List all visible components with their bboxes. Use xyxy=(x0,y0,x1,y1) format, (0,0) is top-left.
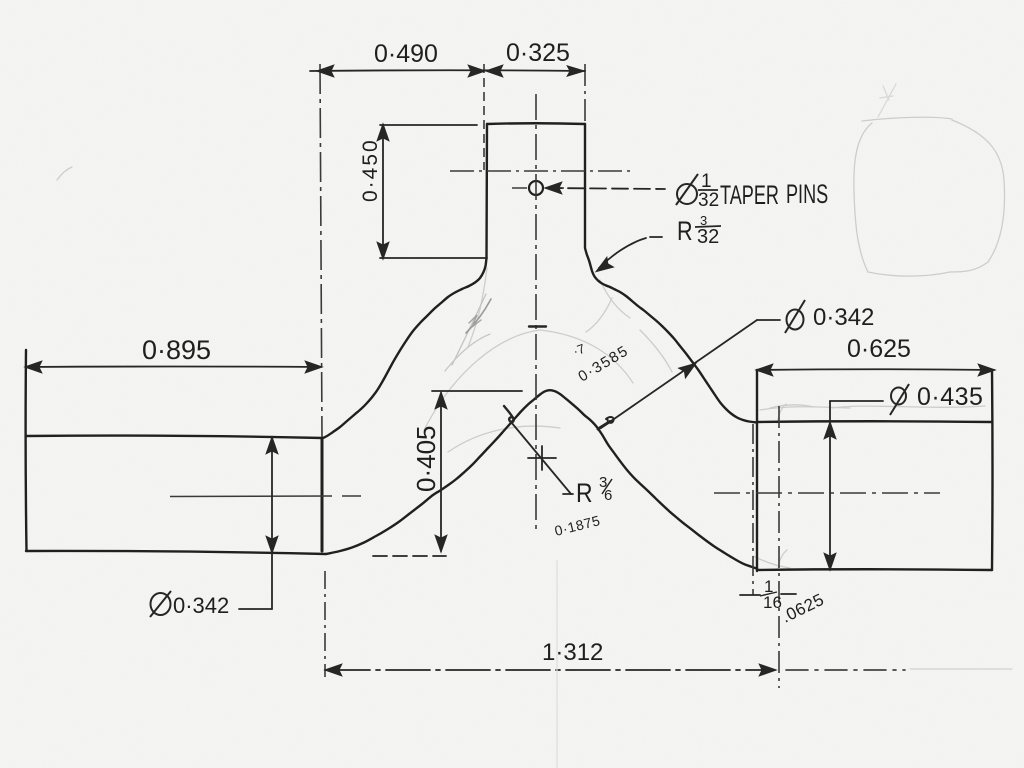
svg-text:R: R xyxy=(576,478,593,508)
svg-text:0·435: 0·435 xyxy=(917,383,983,411)
svg-text:0·625: 0·625 xyxy=(847,335,911,363)
svg-text:0·490: 0·490 xyxy=(374,40,438,68)
svg-text:32: 32 xyxy=(698,190,719,211)
svg-text:0·405: 0·405 xyxy=(411,426,441,493)
svg-text:0·342: 0·342 xyxy=(813,304,874,331)
svg-text:TAPER: TAPER xyxy=(720,179,779,210)
svg-text:6: 6 xyxy=(604,487,612,504)
svg-text:PINS: PINS xyxy=(786,178,828,209)
svg-text:R: R xyxy=(677,217,693,247)
svg-text:16: 16 xyxy=(763,593,782,612)
svg-text:1·312: 1·312 xyxy=(542,639,603,666)
svg-text:0·895: 0·895 xyxy=(142,335,211,365)
svg-text:1: 1 xyxy=(701,171,712,192)
svg-text:32: 32 xyxy=(697,226,719,248)
svg-text:0·342: 0·342 xyxy=(173,593,229,618)
svg-text:0·325: 0·325 xyxy=(506,39,570,67)
svg-text:0·450: 0·450 xyxy=(359,138,382,202)
